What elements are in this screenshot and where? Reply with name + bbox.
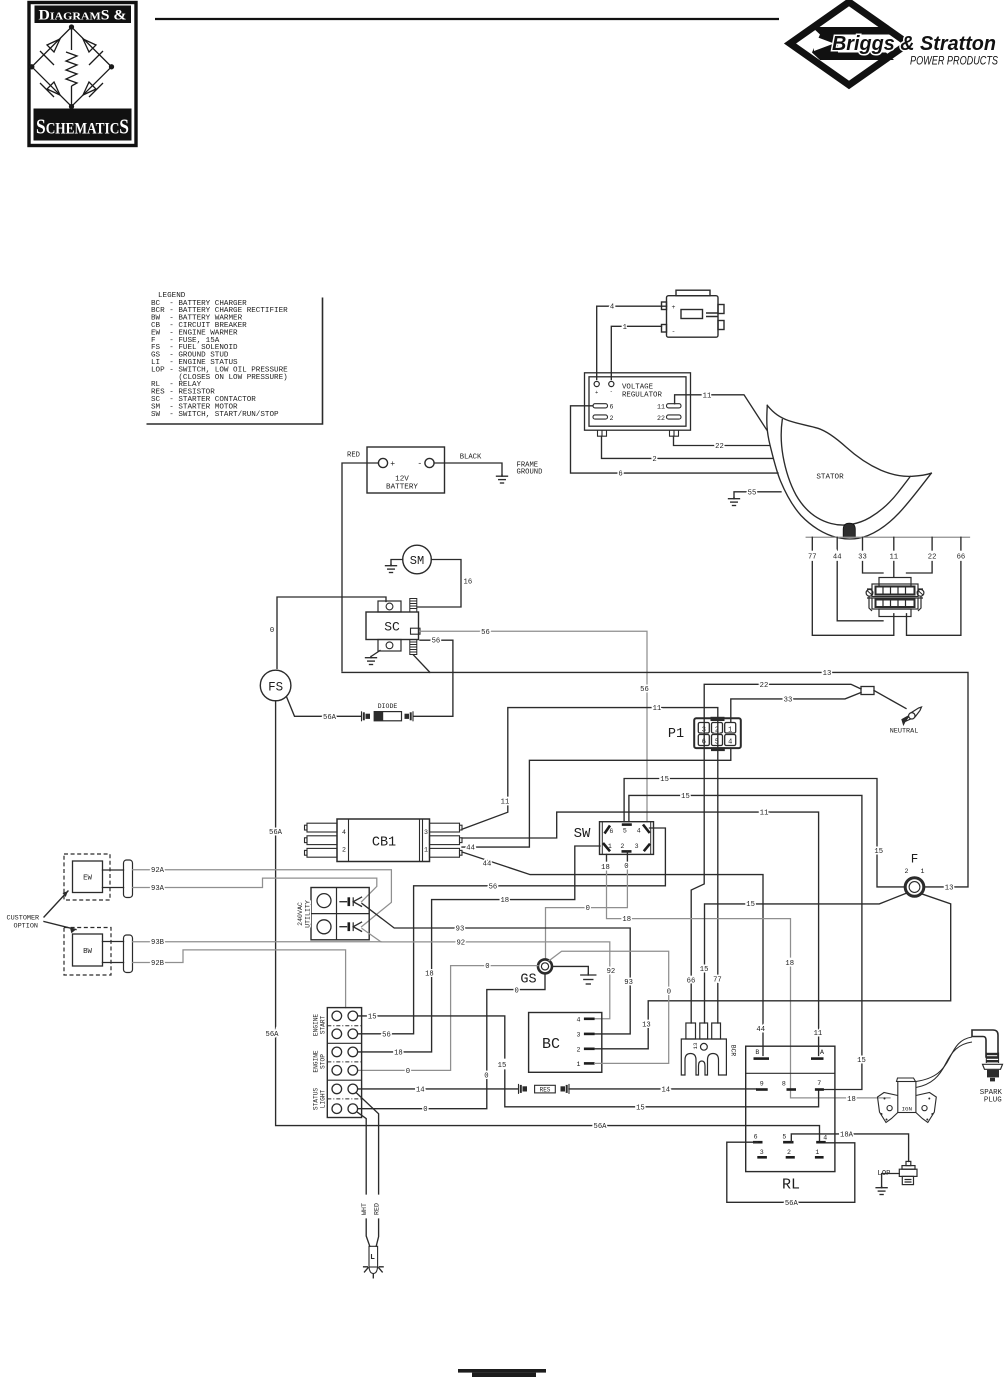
svg-text:15: 15: [636, 1104, 645, 1112]
wire 15 (SW pin5 to RL pin7): [629, 795, 862, 1089]
diode: [362, 711, 371, 721]
wire 56 (SW pin4 west to terminal block row2): [358, 828, 665, 1034]
svg-text:NEUTRAL: NEUTRAL: [890, 727, 919, 735]
svg-text:SC: SC: [384, 620, 400, 635]
SW pin2 bottom bar: [622, 850, 632, 853]
svg-text:RES: RES: [540, 1087, 551, 1094]
svg-text:33: 33: [858, 554, 867, 562]
svg-text:0: 0: [667, 988, 671, 996]
P1 bottom tab: [711, 747, 725, 751]
svg-text:5: 5: [782, 1134, 786, 1141]
svg-text:3: 3: [635, 843, 639, 850]
RL pin 6: [753, 1141, 763, 1144]
GS ground wire: [552, 966, 588, 973]
svg-text:7: 7: [817, 1080, 821, 1087]
svg-text:22: 22: [760, 682, 769, 690]
wire 93B (BW): [133, 941, 382, 943]
spark plug hex: [983, 1064, 1003, 1069]
svg-text:1: 1: [424, 847, 428, 854]
wire 13 (F pin1 to BC pin2): [648, 894, 951, 1019]
svg-text:-: -: [672, 328, 676, 335]
svg-text:ENGINE: ENGINE: [313, 1014, 320, 1037]
spark plug cable: [916, 1037, 972, 1082]
svg-text:11: 11: [760, 810, 769, 818]
P1 pin 2: [712, 723, 723, 734]
SC bottom-right stud connector: [410, 640, 417, 655]
svg-text:77: 77: [713, 976, 722, 984]
svg-text:44: 44: [483, 860, 492, 868]
svg-text:POWER PRODUCTS: POWER PRODUCTS: [910, 56, 998, 68]
wire 0 (FS to SC top): [277, 597, 386, 669]
svg-text:56: 56: [432, 638, 441, 646]
svg-text:4: 4: [823, 1134, 827, 1141]
SC top plate: [378, 601, 401, 612]
svg-text:BATTERY: BATTERY: [386, 484, 418, 492]
svg-text:92B: 92B: [151, 960, 165, 968]
EW dashed option box: [64, 854, 110, 900]
svg-text:93A: 93A: [151, 885, 165, 893]
SM ground: [386, 565, 397, 573]
RL pin 9: [756, 1088, 768, 1091]
svg-text:77: 77: [808, 554, 817, 562]
svg-text:PLUG: PLUG: [984, 1096, 1002, 1104]
svg-text:2: 2: [652, 456, 656, 464]
svg-text:16: 16: [464, 579, 473, 587]
svg-text:RED: RED: [374, 1203, 381, 1215]
fuse F: [905, 878, 924, 897]
wire 0 (GS to terminal row6): [487, 973, 545, 1070]
svg-text:56A: 56A: [785, 1200, 799, 1208]
engine warmer EW: [73, 861, 103, 893]
svg-text:33: 33: [784, 696, 793, 704]
terminal block: [327, 1008, 361, 1118]
BC pin 3: [584, 1033, 595, 1036]
svg-text:SW - SWITCH, START/RUN/STOP: SW - SWITCH, START/RUN/STOP: [151, 411, 279, 419]
terminal circles col1: [332, 1011, 342, 1113]
customer option arrow to EW: [44, 891, 68, 917]
VR terminal +: [594, 381, 599, 386]
stator ground symbol: [729, 498, 740, 506]
SC top-right stud connector: [410, 599, 417, 613]
svg-text:6: 6: [609, 828, 613, 835]
svg-text:8: 8: [782, 1081, 786, 1088]
svg-text:DIODE: DIODE: [378, 703, 398, 710]
svg-text:CUSTOMER: CUSTOMER: [7, 915, 40, 923]
wire 4 (charger to VR +): [597, 306, 667, 379]
circuit breaker CB1 body: [337, 819, 430, 862]
wire 14 (row5 through RES to RL pin9): [358, 1088, 518, 1090]
battery charger plug connector: [662, 290, 725, 337]
svg-text:0: 0: [624, 863, 628, 871]
svg-text:0: 0: [515, 987, 519, 995]
stator connector block: [867, 578, 923, 617]
svg-text:B: B: [755, 1049, 759, 1056]
switch SW box: [600, 822, 654, 855]
svg-text:BCR: BCR: [730, 1045, 737, 1057]
svg-text:6: 6: [754, 1134, 758, 1141]
svg-text:15: 15: [857, 1057, 866, 1065]
svg-text:STATUS: STATUS: [313, 1088, 320, 1111]
svg-text:55: 55: [748, 489, 757, 497]
SC lower stud diagonal to rail: [413, 655, 430, 673]
wire 15 (F pin2 to BCR): [705, 893, 908, 965]
RL pin 1: [815, 1156, 824, 1159]
svg-text:0: 0: [485, 963, 489, 971]
svg-text:240VAC: 240VAC: [297, 902, 304, 926]
splice to neutral lead: [874, 691, 906, 709]
svg-text:56A: 56A: [269, 829, 283, 837]
svg-text:18: 18: [500, 897, 509, 905]
svg-text:1: 1: [728, 726, 732, 734]
RL pin B: [754, 1057, 770, 1060]
svg-text:44: 44: [833, 554, 842, 562]
SC bottom plate: [378, 640, 401, 652]
wire 44 (P1 pin4 to CB1): [462, 748, 731, 847]
P1 pin 6: [698, 735, 709, 746]
svg-text:FS: FS: [268, 681, 283, 695]
RL pin A: [811, 1057, 824, 1060]
wire 15 (SW pin5 to fuse F pin2): [624, 779, 904, 887]
RL pin 7: [815, 1088, 824, 1091]
wire 44 (CB1 pin1 to RL pin B): [462, 852, 763, 1056]
svg-text:1: 1: [577, 1061, 581, 1068]
svg-text:F: F: [911, 853, 919, 867]
low oil pressure switch LOP: [899, 1161, 917, 1184]
svg-text:0: 0: [484, 1073, 488, 1081]
lamp wire RED: [356, 1093, 379, 1194]
svg-text:56: 56: [481, 629, 490, 637]
svg-text:15: 15: [368, 1013, 377, 1021]
svg-text:4: 4: [610, 304, 614, 312]
svg-text:UTILITY: UTILITY: [305, 900, 312, 928]
svg-text:15: 15: [700, 966, 709, 974]
svg-text:56: 56: [382, 1031, 391, 1039]
junction connector (22/33 splice): [861, 687, 874, 695]
svg-text:3: 3: [577, 1031, 581, 1038]
svg-text:GS: GS: [520, 973, 536, 988]
SW contact tick 3: [644, 844, 650, 852]
svg-text:93: 93: [456, 926, 465, 934]
svg-text:0: 0: [586, 905, 590, 913]
wire 66 (P1 pin6 down to BCR): [691, 718, 704, 975]
Briggs & Stratton logo diamond: [790, 2, 908, 85]
svg-text:OPTION: OPTION: [14, 922, 38, 930]
svg-text:1: 1: [815, 1149, 819, 1156]
svg-text:11: 11: [501, 798, 510, 806]
stator wire 66: [960, 537, 962, 550]
svg-text:22: 22: [657, 415, 665, 422]
wire 0 (GS to terminal row4): [358, 966, 538, 1071]
P1 pin 1: [725, 723, 736, 734]
wire 92 (utility to BC pin4): [362, 929, 610, 967]
wire 56A loop (RL pin6 to pin4): [727, 1142, 855, 1202]
svg-text:18: 18: [785, 960, 794, 968]
svg-text:14: 14: [661, 1086, 670, 1094]
customer option arrow to BW: [44, 922, 76, 930]
BC pin 2: [584, 1048, 595, 1051]
svg-text:4: 4: [342, 829, 346, 836]
BW connector bar: [124, 935, 133, 973]
svg-text:START: START: [320, 1015, 327, 1034]
svg-text:IGN: IGN: [902, 1106, 913, 1113]
svg-text:A: A: [820, 1049, 824, 1056]
stator body: [767, 405, 932, 539]
CB1 right comb: [430, 823, 463, 857]
wire 93 (utility to BC pin3): [362, 904, 630, 979]
svg-text:4: 4: [728, 739, 732, 747]
RL pin 4: [816, 1141, 826, 1144]
SC 56 slot terminal: [411, 628, 421, 634]
RL pin 8: [787, 1088, 797, 1091]
SW pin5 top bar: [622, 823, 632, 826]
VR slot 22: [667, 415, 682, 419]
wire BLACK to frame ground: [434, 463, 502, 475]
P1 pin 3: [698, 723, 709, 734]
svg-text:REGULATOR: REGULATOR: [622, 392, 662, 400]
svg-text:11: 11: [889, 554, 898, 562]
wire 0 (SW pin2 to GS): [626, 851, 628, 861]
svg-text:RED: RED: [347, 452, 360, 460]
wire 56 (SC slot to diode): [414, 640, 453, 716]
battery - terminal: [425, 458, 434, 467]
P1 pin 4: [725, 735, 736, 746]
svg-text:2: 2: [577, 1046, 581, 1053]
stator wire 77: [811, 537, 813, 550]
wire 2 (VR to stator): [602, 436, 774, 458]
svg-text:1: 1: [921, 868, 925, 875]
svg-text:0: 0: [270, 627, 274, 635]
Diagrams & Schematics logo frame: [29, 3, 136, 146]
svg-text:56: 56: [489, 883, 498, 891]
wire 15 (row1 to RL pin7): [358, 1016, 505, 1058]
svg-text:18: 18: [847, 1096, 856, 1104]
svg-text:15: 15: [874, 848, 883, 856]
svg-text:11: 11: [657, 404, 665, 411]
spark plug body: [987, 1070, 999, 1078]
wire 77 (P1 pin5 down to BCR): [717, 723, 719, 974]
starter contactor SC box: [366, 612, 419, 640]
svg-text:1: 1: [623, 324, 627, 332]
svg-text:93: 93: [624, 979, 633, 987]
svg-text:92: 92: [607, 968, 616, 976]
svg-text:P1: P1: [668, 727, 684, 742]
EW connector bar: [124, 860, 133, 898]
stator ground wire 55: [734, 492, 781, 498]
LOP ground: [882, 1174, 900, 1187]
svg-text:2: 2: [610, 415, 614, 422]
svg-text:STATOR: STATOR: [816, 474, 844, 482]
svg-text:+: +: [595, 389, 598, 396]
status lamp LI: [369, 1246, 378, 1273]
SW contact tick 4: [643, 825, 650, 834]
neutral symbol: [902, 707, 922, 725]
svg-text:+: +: [390, 460, 395, 469]
svg-text:2: 2: [620, 843, 624, 850]
P1 connector body: [694, 718, 741, 748]
svg-text:56A: 56A: [266, 1031, 280, 1039]
240VAC utility receptacle: [311, 888, 369, 940]
svg-text:WHT: WHT: [361, 1203, 368, 1215]
svg-text:11: 11: [703, 392, 712, 400]
svg-text:3: 3: [424, 829, 428, 836]
page footer mark: [458, 1369, 546, 1373]
svg-text:-: -: [610, 388, 613, 395]
svg-text:92A: 92A: [151, 867, 165, 875]
svg-text:92: 92: [456, 939, 465, 947]
svg-text:BLACK: BLACK: [460, 454, 482, 462]
wire 56A (FS to diode): [286, 697, 361, 717]
svg-text:ENGINE: ENGINE: [313, 1050, 320, 1073]
VR foot left: [598, 430, 607, 436]
wire 92A (EW to utility plug): [133, 870, 392, 927]
wire 92B (BW): [133, 950, 346, 1008]
stator wire 33: [862, 537, 864, 550]
relay RL box: [746, 1046, 835, 1171]
svg-text:66: 66: [957, 554, 966, 562]
svg-text:11: 11: [653, 705, 662, 713]
wire 11 (CB1 pin3 to P1): [462, 806, 508, 829]
GS ground symbol: [581, 974, 596, 985]
ignition coil IGN: [878, 1078, 937, 1123]
fuel solenoid FS: [260, 670, 291, 701]
svg-text:EW: EW: [83, 875, 92, 883]
wire 56A long (FS down to RL pin 4): [276, 701, 820, 1141]
svg-text:12V: 12V: [395, 476, 409, 484]
svg-text:11: 11: [814, 1030, 823, 1038]
svg-text:+: +: [672, 304, 676, 311]
svg-text:93B: 93B: [151, 939, 165, 947]
lamp wire WHT: [358, 1112, 367, 1194]
svg-text:GROUND: GROUND: [517, 469, 543, 477]
svg-text:15: 15: [498, 1062, 507, 1070]
RL pin 3: [757, 1156, 767, 1159]
wire 11 (CB1 pin3 to RL pin A): [462, 812, 819, 1055]
svg-text:2: 2: [342, 847, 346, 854]
battery charger BC box: [529, 1013, 602, 1073]
svg-text:Briggs & Stratton: Briggs & Stratton: [832, 33, 996, 55]
wire 1 (charger to VR -): [611, 326, 661, 379]
svg-text:SM: SM: [410, 554, 424, 568]
svg-text:15: 15: [746, 901, 755, 909]
svg-text:LEGEND: LEGEND: [158, 292, 186, 300]
svg-text:15: 15: [660, 776, 669, 784]
svg-text:56A: 56A: [594, 1123, 608, 1131]
svg-text:13: 13: [642, 1022, 651, 1030]
svg-text:9: 9: [760, 1080, 764, 1087]
stator harness bar: [806, 536, 969, 538]
stator connector screw left: [866, 589, 873, 596]
svg-text:18: 18: [622, 916, 631, 924]
wire 18 gray (SW pin1 through RL pin8 to IGN): [606, 854, 608, 861]
svg-text:STOP: STOP: [320, 1054, 327, 1069]
spark plug ribs: [986, 1053, 998, 1064]
svg-text:3: 3: [760, 1149, 764, 1156]
P1 top tab: [711, 717, 725, 721]
BC pin 4: [584, 1017, 595, 1020]
svg-text:6: 6: [610, 404, 614, 411]
resistor RES: [519, 1084, 528, 1094]
svg-text:BW: BW: [83, 948, 92, 956]
svg-text:2: 2: [905, 868, 909, 875]
VR slot 11: [667, 404, 682, 408]
svg-text:13: 13: [692, 1042, 699, 1049]
svg-text:0: 0: [406, 1068, 410, 1076]
svg-text:14: 14: [416, 1086, 425, 1094]
svg-text:0: 0: [423, 1106, 427, 1114]
wire 6 (VR to stator): [571, 406, 779, 473]
battery box: [367, 447, 445, 493]
wire RED (battery + feeder): [342, 463, 378, 671]
svg-text:-: -: [417, 460, 422, 469]
logo bridge-rectifier emblem: [30, 25, 114, 109]
wire 18A (RL pin5 to LOP): [791, 1134, 908, 1162]
top rule: [155, 18, 779, 20]
SM ground wire: [391, 560, 403, 565]
wire 13 main rail: [342, 672, 968, 887]
terminal circles col2: [348, 1011, 358, 1113]
SW contact tick 6: [605, 826, 611, 834]
svg-text:LIGHT: LIGHT: [320, 1089, 327, 1108]
utility plug upper: [340, 897, 362, 906]
RL pin 2: [786, 1156, 795, 1159]
stator wire 44: [836, 537, 838, 550]
wire 22 (P1 pin3 col up and east): [704, 684, 861, 718]
legend text: [151, 292, 288, 419]
utility plug lower: [340, 922, 362, 931]
ground stud GS: [538, 959, 552, 973]
wire 0 gray (BC pin1 to GS): [595, 995, 669, 1063]
SC ground: [371, 651, 380, 657]
svg-text:BC: BC: [542, 1036, 560, 1053]
svg-text:15: 15: [681, 793, 690, 801]
wire 16 (SM to SC): [418, 560, 462, 608]
svg-text:4: 4: [637, 827, 641, 834]
stator wire 11: [893, 537, 895, 550]
battery charge rectifier BCR: [681, 1023, 726, 1075]
svg-text:18: 18: [394, 1049, 403, 1057]
SW contact tick 1: [603, 843, 610, 851]
starter motor SM: [403, 545, 432, 574]
spark plug boot: [972, 1030, 998, 1057]
svg-text:4: 4: [577, 1016, 581, 1023]
svg-text:DIAGRAMS &: DIAGRAMS &: [39, 8, 127, 24]
battery + terminal: [378, 458, 387, 467]
svg-text:RL: RL: [782, 1177, 800, 1194]
svg-text:44: 44: [756, 1026, 765, 1034]
stator connector screw right: [917, 589, 924, 596]
svg-text:56A: 56A: [323, 714, 337, 722]
svg-text:13: 13: [945, 885, 954, 893]
wire 33 (P1 pin1 col up and east): [731, 693, 861, 723]
voltage regulator U-VR box: [585, 373, 691, 430]
battery warmer BW: [73, 934, 103, 966]
wire 93A (EW to utility plug): [133, 878, 377, 902]
stator wire 22: [0, 0, 1, 1]
CB1 left comb: [305, 823, 338, 857]
svg-text:13: 13: [823, 670, 832, 678]
svg-text:2: 2: [787, 1149, 791, 1156]
svg-text:22: 22: [928, 554, 937, 562]
RL pin 5: [783, 1141, 793, 1144]
svg-text:CB1: CB1: [372, 836, 396, 851]
svg-text:22: 22: [715, 443, 724, 451]
stator lead stub: [843, 523, 855, 537]
svg-text:18: 18: [425, 970, 434, 978]
wire 11 (VR to stator): [675, 395, 767, 430]
wire 56 gray (SC to SW pin4): [420, 631, 647, 821]
frame ground symbol: [497, 475, 508, 483]
VR slot 6: [593, 404, 608, 408]
